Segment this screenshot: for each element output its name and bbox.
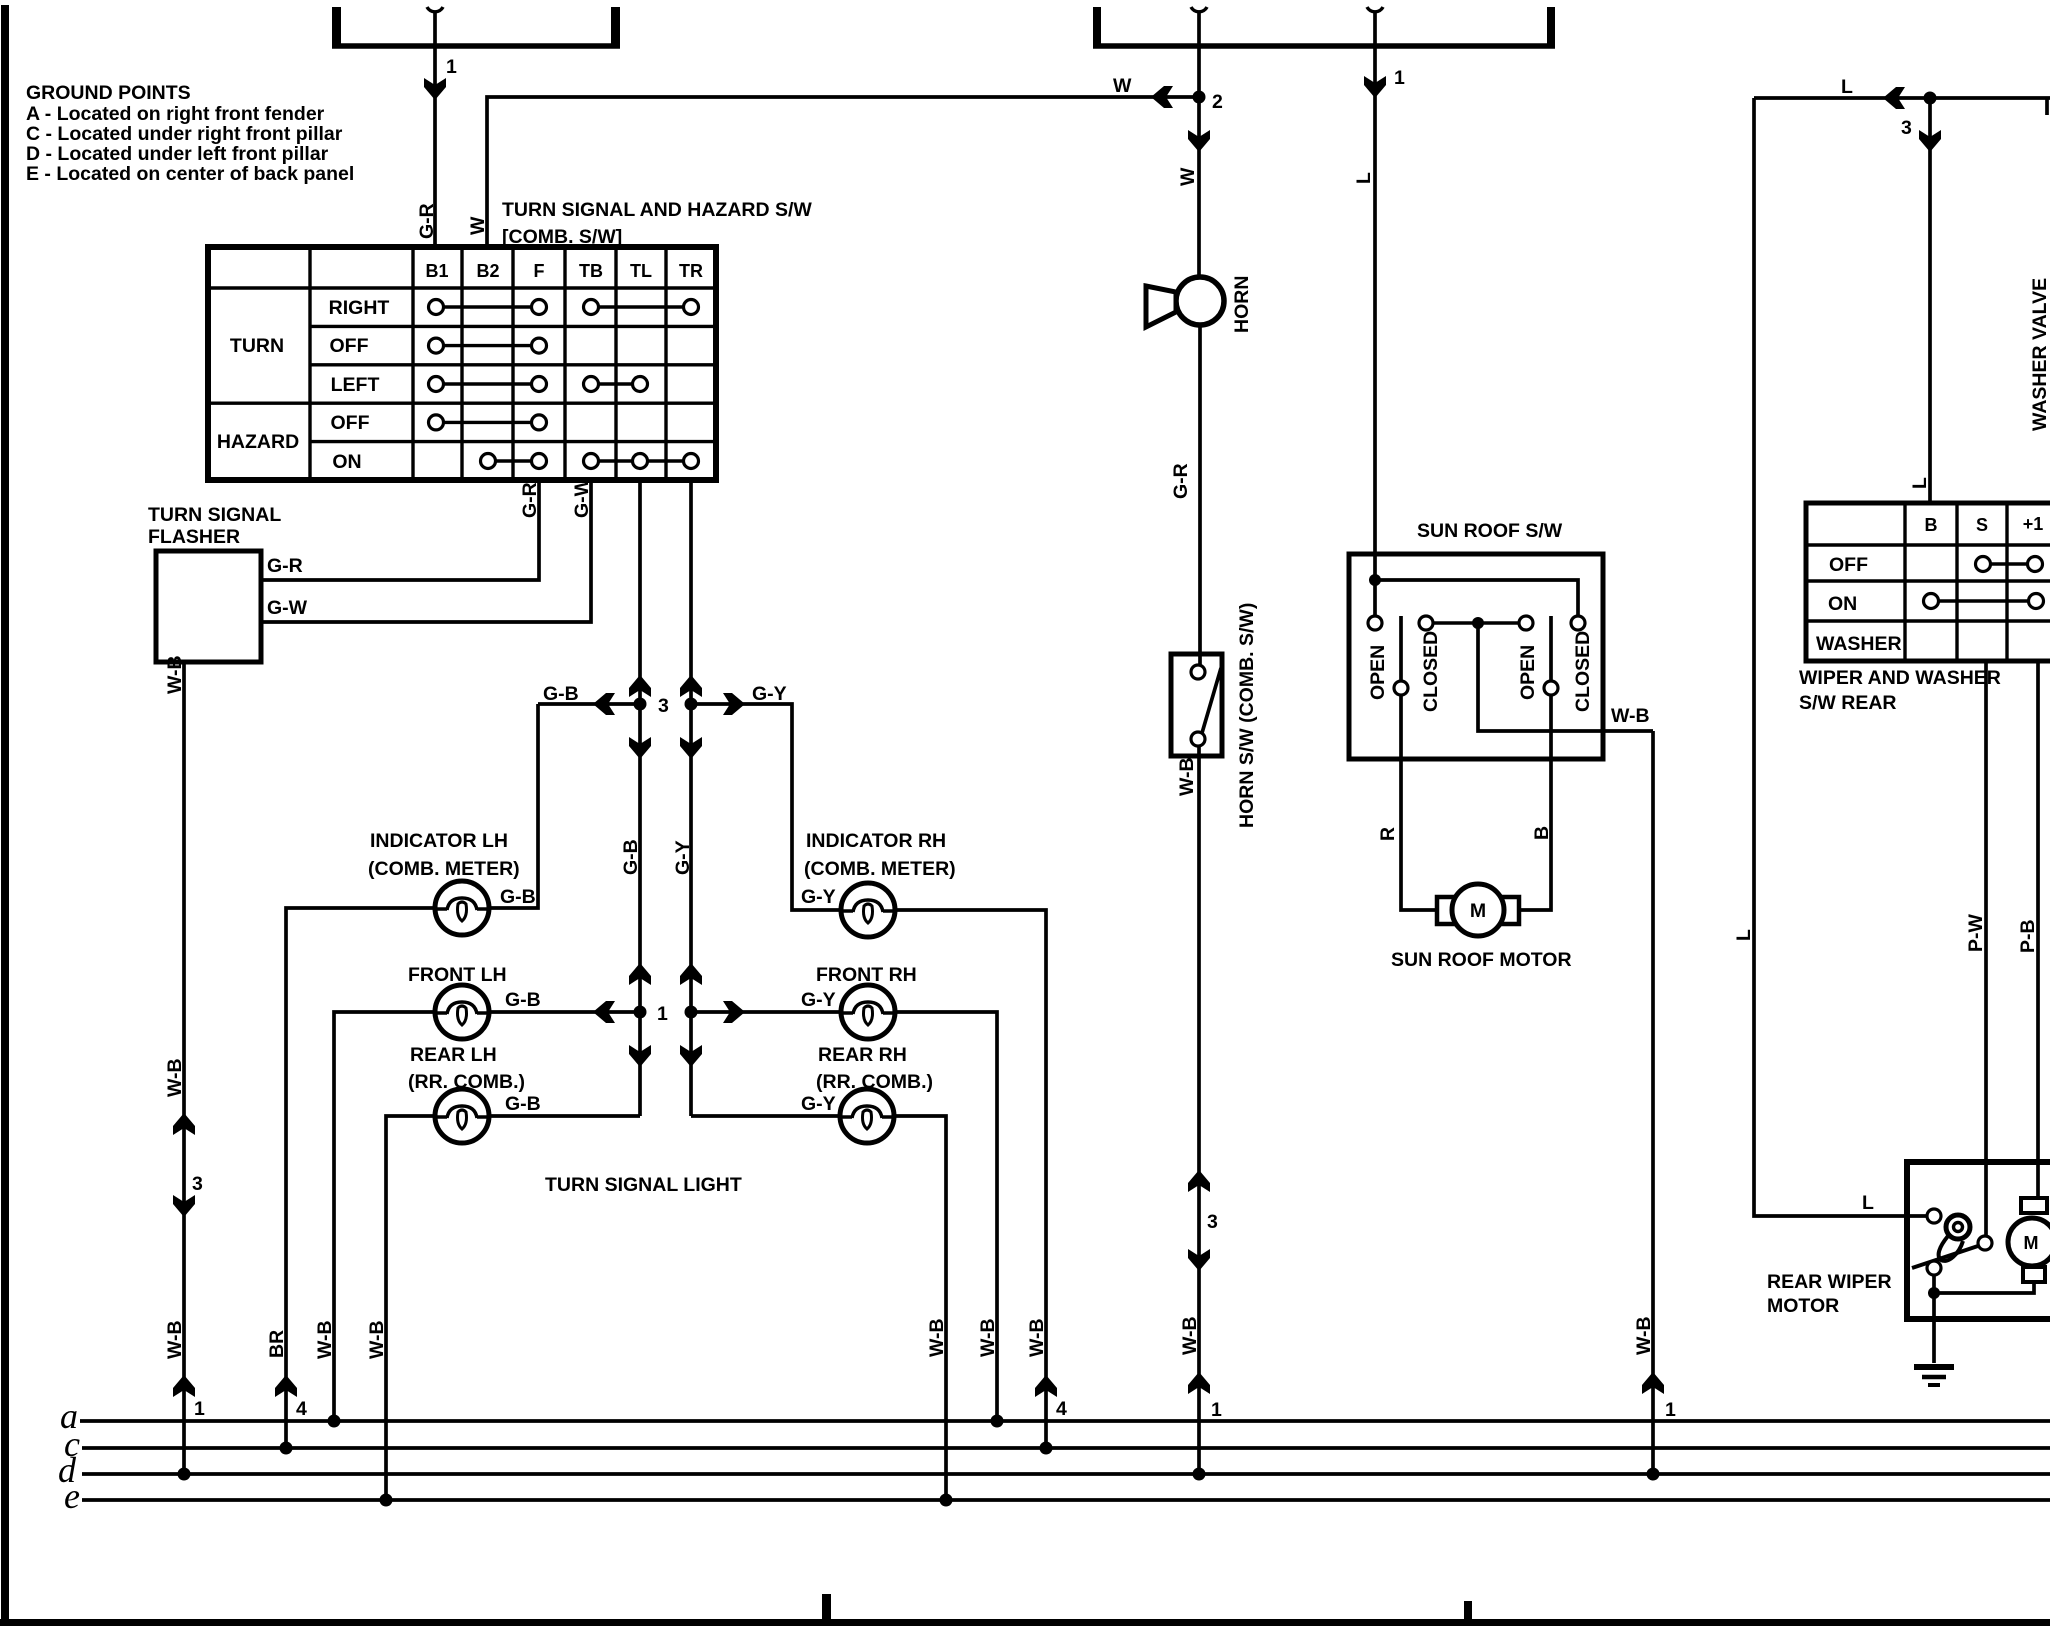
svg-text:WIPER AND WASHER: WIPER AND WASHER [1799, 667, 2001, 689]
svg-text:GROUND POINTS: GROUND POINTS [26, 82, 191, 104]
wire G-B branch to front LH [490, 1010, 640, 1014]
svg-text:B: B [1925, 515, 1938, 535]
svg-text:TURN SIGNAL: TURN SIGNAL [148, 504, 281, 526]
svg-text:HAZARD: HAZARD [217, 431, 299, 453]
arrow right G-Y [723, 693, 745, 715]
svg-text:W-B: W-B [314, 1320, 336, 1359]
svg-text:G-W: G-W [571, 477, 593, 518]
svg-text:e: e [64, 1476, 80, 1516]
connector 1 arrow [424, 78, 446, 100]
rear LH title [408, 1044, 525, 1093]
svg-text:OFF: OFF [331, 412, 370, 434]
wire W-B rear RH to rail e [895, 1116, 946, 1500]
node rail e junction [940, 1494, 953, 1507]
rear wiper blade [1912, 1246, 1978, 1268]
svg-text:P-W: P-W [1965, 914, 1987, 953]
connector cup on wire B1 [427, 7, 443, 12]
wire L top horizontal [1754, 96, 2050, 100]
svg-text:W-B: W-B [1633, 1316, 1655, 1355]
svg-text:W: W [467, 216, 489, 235]
switch horn S/W box [1171, 654, 1222, 756]
svg-text:W-B: W-B [1176, 757, 1198, 796]
svg-text:S/W REAR: S/W REAR [1799, 692, 1897, 714]
wire L from bus to sunroof switch [1373, 12, 1377, 580]
switch wiper and washer rear table [1806, 503, 2050, 661]
svg-text:1: 1 [446, 56, 457, 78]
switch contacts row RIGHT [429, 300, 699, 315]
switch S1 turn/hazard contact table [208, 247, 716, 480]
contact closed 2 [1571, 616, 1585, 630]
svg-text:L: L [1862, 1192, 1874, 1214]
node L junction in box [1369, 574, 1381, 586]
wire G-W switch TB to flasher [261, 480, 591, 622]
svg-text:W-B: W-B [926, 1318, 948, 1357]
connector 3 arrow down [1919, 130, 1941, 152]
wire G-Y branch to front RH [691, 1010, 840, 1014]
svg-text:W-B: W-B [1026, 1318, 1048, 1357]
wire W-B horn switch to rail d [1197, 746, 1201, 1474]
svg-text:A - Located on right front fen: A - Located on right front fender [26, 103, 325, 125]
svg-text:G-B: G-B [500, 886, 536, 908]
svg-text:G-W: G-W [267, 597, 308, 619]
svg-text:W-B: W-B [164, 655, 186, 694]
svg-text:W-B: W-B [977, 1318, 999, 1357]
svg-text:G-Y: G-Y [801, 1093, 836, 1115]
svg-text:REAR LH: REAR LH [410, 1044, 497, 1066]
svg-text:OPEN: OPEN [1367, 645, 1389, 700]
connector 3 arrow down [173, 1195, 195, 1217]
svg-text:L: L [1841, 76, 1853, 98]
motor sun roof [1437, 884, 1519, 936]
svg-text:4: 4 [296, 1398, 307, 1420]
svg-text:OFF: OFF [1829, 554, 1868, 576]
svg-text:WASHER: WASHER [1816, 633, 1902, 655]
wire G-Y rear RH from mid wire [691, 1114, 839, 1118]
wire B to sun roof motor [1516, 695, 1551, 910]
connector 4 arrow up [275, 1375, 297, 1397]
connector 2 arrow [1188, 130, 1210, 152]
svg-text:W-B: W-B [366, 1320, 388, 1359]
connector 3 arrow down [1188, 1249, 1210, 1271]
wiper table header labels [1925, 514, 2044, 535]
wire W-B front LH to rail a [334, 1012, 434, 1421]
ground points note [26, 82, 354, 185]
node rail c junction [280, 1442, 293, 1455]
switch contacts row OFF [429, 338, 547, 353]
svg-text:G-R: G-R [267, 555, 303, 577]
page border tick 1 [822, 1594, 831, 1621]
sun roof switch box [1349, 554, 1603, 759]
flasher title [148, 504, 281, 548]
page border left [1, 5, 9, 1626]
connector arrow up [173, 1113, 195, 1135]
rear wiper P-W contact [1978, 1236, 1992, 1250]
arrow W left [1151, 86, 1173, 108]
node rail e junction [380, 1494, 393, 1507]
connector 1 arrow up [173, 1375, 195, 1397]
contact open 2 [1519, 616, 1533, 630]
horn switch contact bottom [1191, 732, 1205, 746]
svg-text:L: L [1909, 477, 1931, 489]
wire W-B flasher to rail d [182, 662, 186, 1474]
wire G-R horn to horn switch [1198, 325, 1202, 665]
svg-text:F: F [534, 261, 545, 281]
switch blade 2 [1549, 616, 1553, 681]
horn switch contact top [1191, 665, 1205, 679]
connector 1 arrow on L [1364, 76, 1386, 98]
node G-Y junction 1 [685, 1006, 698, 1019]
svg-text:3: 3 [1207, 1211, 1218, 1233]
svg-text:L: L [1733, 929, 1755, 941]
svg-text:1: 1 [1394, 67, 1405, 89]
svg-text:WASHER VALVE: WASHER VALVE [2029, 278, 2050, 431]
connector 1 arrows G-Y [680, 963, 702, 1067]
svg-text:SUN ROOF MOTOR: SUN ROOF MOTOR [1391, 949, 1572, 971]
rear wiper L terminal [1927, 1209, 1941, 1223]
svg-text:TB: TB [579, 261, 603, 281]
svg-text:LEFT: LEFT [331, 374, 380, 396]
rail d [82, 1472, 2050, 1476]
motor rear wiper [2008, 1198, 2050, 1282]
arrow right G-Y front [723, 1001, 745, 1023]
svg-text:REAR WIPER: REAR WIPER [1767, 1271, 1892, 1293]
svg-text:MOTOR: MOTOR [1767, 1295, 1839, 1317]
svg-text:G-B: G-B [505, 1093, 541, 1115]
svg-text:CLOSED: CLOSED [1572, 631, 1594, 712]
connector 4 arrow up [1035, 1375, 1057, 1397]
svg-text:REAR RH: REAR RH [818, 1044, 907, 1066]
svg-text:G-Y: G-Y [801, 886, 836, 908]
arrow left G-B [593, 693, 615, 715]
wire W-B common exit [1478, 623, 1653, 731]
node G-B junction 3 [634, 698, 647, 711]
wire W-B indicator RH to rail c [896, 910, 1046, 1448]
indicator RH title [804, 830, 956, 880]
contact closed 1 [1419, 616, 1433, 630]
lamp rear LH [435, 1089, 489, 1143]
svg-text:TURN: TURN [230, 335, 284, 357]
svg-text:ON: ON [332, 451, 361, 473]
svg-text:3: 3 [658, 695, 669, 717]
switch common 2 [1544, 681, 1558, 695]
rear wiper park contact [1927, 1261, 1941, 1275]
switch table row labels [217, 297, 390, 473]
node G-B junction 1 [634, 1006, 647, 1019]
svg-text:TR: TR [679, 261, 703, 281]
svg-text:M: M [1470, 900, 1486, 922]
rear wiper motor box [1907, 1162, 2050, 1319]
svg-text:FLASHER: FLASHER [148, 526, 240, 548]
wire P-B wiper switch to motor [2036, 661, 2040, 1200]
svg-text:R: R [1377, 827, 1399, 841]
wire W-B sunroof to rail d [1651, 731, 1655, 1474]
svg-text:W-B: W-B [164, 1058, 186, 1097]
wire L right edge stub [2045, 98, 2049, 115]
svg-text:1: 1 [194, 1398, 205, 1420]
svg-text:FRONT LH: FRONT LH [408, 964, 507, 986]
connector 3 arrow up [1188, 1170, 1210, 1192]
svg-text:BR: BR [266, 1330, 288, 1358]
switch turn signal and hazard title [502, 199, 812, 248]
svg-text:B: B [1531, 826, 1553, 840]
contact open 1 [1368, 616, 1382, 630]
lamp rear RH [840, 1089, 894, 1143]
lamp front RH [841, 985, 895, 1039]
svg-text:1: 1 [1665, 1399, 1676, 1421]
ground [1914, 1367, 1954, 1385]
svg-text:D - Located under left front p: D - Located under left front pillar [26, 143, 329, 165]
wiper switch caption [1799, 667, 2001, 714]
switch blade 1 [1399, 616, 1403, 681]
svg-text:TURN SIGNAL LIGHT: TURN SIGNAL LIGHT [545, 1174, 742, 1196]
svg-text:2: 2 [1212, 91, 1223, 113]
arrow left G-B front [593, 1001, 615, 1023]
svg-text:G-Y: G-Y [672, 840, 694, 875]
svg-text:(COMB. METER): (COMB. METER) [368, 858, 520, 880]
wire L to rear wiper motor [1754, 98, 1934, 1216]
svg-text:4: 4 [1056, 1398, 1067, 1420]
wire G-R switch F to flasher [261, 480, 539, 580]
svg-text:G-B: G-B [505, 989, 541, 1011]
svg-text:G-R: G-R [519, 482, 541, 518]
svg-text:G-R: G-R [1170, 463, 1192, 499]
connector cup on wire W [1191, 7, 1207, 12]
wire to open contact [1373, 580, 1377, 616]
lamp indicator LH [435, 881, 489, 935]
wiper contacts row ON [1924, 594, 2044, 609]
svg-text:OFF: OFF [330, 335, 369, 357]
page border tick 2 [1464, 1601, 1472, 1621]
svg-text:HORN: HORN [1231, 276, 1253, 333]
rear wiper cam [1939, 1215, 1970, 1261]
svg-text:OPEN: OPEN [1517, 645, 1539, 700]
wire W-B rear LH to rail e [386, 1116, 434, 1500]
horn symbol [1146, 277, 1224, 327]
wiper table row labels [1816, 554, 1902, 655]
svg-text:INDICATOR LH: INDICATOR LH [370, 830, 508, 852]
wire G-B from switch TL down [638, 480, 642, 1116]
bus bar left [332, 7, 620, 48]
connector 3 arrows G-B [629, 675, 651, 759]
svg-text:SUN ROOF S/W: SUN ROOF S/W [1417, 520, 1563, 542]
turn signal flasher box [156, 551, 261, 662]
svg-text:ON: ON [1828, 593, 1857, 615]
svg-text:+1: +1 [2023, 514, 2044, 534]
node rail a junction [991, 1415, 1004, 1428]
lamp front LH [435, 985, 489, 1039]
node rail a junction [328, 1415, 341, 1428]
svg-text:G-R: G-R [416, 203, 438, 239]
rail e [82, 1498, 2050, 1502]
svg-text:G-Y: G-Y [801, 989, 836, 1011]
rear wiper motor caption [1767, 1271, 1892, 1317]
wire R to sun roof motor [1401, 695, 1440, 910]
svg-text:W-B: W-B [1179, 1316, 1201, 1355]
node rail c junction [1040, 1442, 1053, 1455]
node W junction [1193, 91, 1206, 104]
svg-text:CLOSED: CLOSED [1420, 631, 1442, 712]
indicator LH title [368, 830, 520, 880]
svg-text:G-B: G-B [620, 839, 642, 875]
arrow left L [1883, 87, 1905, 109]
svg-text:S: S [1976, 515, 1988, 535]
svg-text:3: 3 [1901, 117, 1912, 139]
rail c [82, 1446, 2050, 1450]
svg-text:W-B: W-B [164, 1320, 186, 1359]
wire G-B branch to indicator LH [538, 702, 640, 706]
svg-text:B1: B1 [425, 261, 448, 281]
svg-text:(COMB. METER): (COMB. METER) [804, 858, 956, 880]
rail a [80, 1419, 2050, 1423]
svg-text:1: 1 [1211, 1399, 1222, 1421]
svg-text:G-B: G-B [543, 683, 579, 705]
wire park to ground [1932, 1275, 1936, 1363]
wire park to motor [1934, 1282, 2034, 1293]
node L junction [1924, 92, 1937, 105]
wire L to wiper switch B [1928, 98, 1932, 505]
node rail d junction [1193, 1468, 1206, 1481]
switch contacts row HAZARD ON [481, 454, 699, 469]
node G-Y junction 3 [685, 698, 698, 711]
svg-text:W: W [1177, 167, 1199, 186]
wire G-Y branch to indicator RH [691, 704, 841, 910]
svg-text:1: 1 [657, 1003, 668, 1025]
connector 1 arrow up [1188, 1372, 1210, 1394]
wire W to comb switch B2 [487, 97, 1199, 247]
svg-text:W-B: W-B [1611, 705, 1650, 727]
wire W-B front RH to rail a [896, 1012, 997, 1421]
horn switch blade [1202, 668, 1221, 733]
wiper contacts row OFF [1976, 557, 2043, 572]
svg-text:L: L [1353, 172, 1375, 184]
switch contacts row LEFT [429, 377, 648, 392]
wire P-W wiper switch to motor [1984, 661, 1988, 1240]
svg-text:TURN SIGNAL AND HAZARD S/W: TURN SIGNAL AND HAZARD S/W [502, 199, 812, 221]
bus bar right [1093, 7, 1555, 48]
switch table header labels [425, 261, 703, 281]
wire W from bus to horn [1197, 12, 1201, 277]
connector 1 arrows G-B [629, 963, 651, 1067]
rear RH title [816, 1044, 933, 1093]
connector 1 arrow up [1642, 1372, 1664, 1394]
wire G-B rear LH to mid wire [490, 1114, 640, 1118]
svg-text:M: M [2024, 1233, 2039, 1253]
svg-text:RIGHT: RIGHT [329, 297, 390, 319]
node rail d junction [1647, 1468, 1660, 1481]
page border bottom [0, 1619, 2050, 1626]
lamp indicator RH [841, 883, 895, 937]
node park junction [1928, 1287, 1940, 1299]
connector cup on wire L [1367, 7, 1383, 12]
node rail d junction [178, 1468, 191, 1481]
svg-text:P-B: P-B [2017, 919, 2039, 953]
svg-text:TL: TL [630, 261, 652, 281]
svg-text:W: W [1113, 75, 1132, 97]
wire G-R from bus to switch B1 [433, 12, 437, 247]
svg-text:G-Y: G-Y [752, 683, 787, 705]
svg-text:B2: B2 [476, 261, 499, 281]
svg-text:E - Located on center of back: E - Located on center of back panel [26, 163, 354, 185]
wire inside box top [1375, 580, 1578, 616]
switch contacts row HAZARD OFF [429, 415, 547, 430]
connector 3 arrows G-Y [680, 675, 702, 759]
wire between closed and open contacts [1426, 621, 1526, 624]
svg-text:HORN S/W (COMB. S/W): HORN S/W (COMB. S/W) [1236, 603, 1258, 828]
svg-text:INDICATOR RH: INDICATOR RH [806, 830, 946, 852]
node common junction [1472, 617, 1484, 629]
switch common 1 [1394, 681, 1408, 695]
wire G-B indicator LH to junction [490, 704, 538, 908]
svg-text:C - Located under right front: C - Located under right front pillar [26, 123, 343, 145]
wire BR indicator LH to rail c [286, 908, 434, 1448]
svg-text:3: 3 [192, 1173, 203, 1195]
wire G-Y from switch TR down [689, 480, 693, 1116]
